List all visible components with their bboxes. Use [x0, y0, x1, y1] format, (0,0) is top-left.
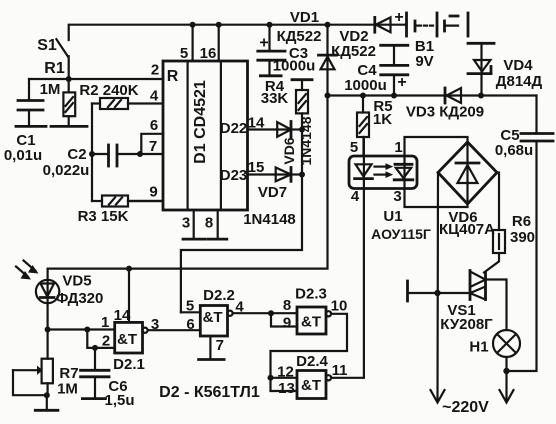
wire R2-R3 left vertical — [91, 104, 93, 202]
diode VD3 КД209 — [406, 88, 484, 121]
svg-text:1K: 1K — [373, 111, 392, 128]
svg-text:АОУ115Г: АОУ115Г — [371, 226, 431, 242]
svg-text:33K: 33K — [261, 90, 289, 107]
svg-text:VD7: VD7 — [258, 184, 287, 201]
svg-text:1: 1 — [394, 139, 402, 156]
pin 7 label — [149, 138, 157, 155]
wire pin14 lead — [126, 266, 132, 323]
capacitor C1 — [4, 79, 46, 164]
wire gate — [408, 292, 471, 294]
gate D2.4 — [268, 353, 348, 399]
pin 14 wire — [248, 115, 292, 132]
svg-text:H1: H1 — [469, 339, 488, 356]
wire pins 6-7 loop — [137, 134, 163, 157]
svg-text:0,68u: 0,68u — [495, 142, 533, 159]
svg-text:D2 - К561ТЛ1: D2 - К561ТЛ1 — [159, 384, 260, 401]
resistor R3 — [78, 196, 163, 226]
capacitor C4 — [344, 45, 408, 98]
svg-text:КД522: КД522 — [331, 43, 376, 60]
resistor R5 — [357, 93, 393, 157]
node gate junction — [434, 290, 440, 296]
triac VS1 КУ208Г — [440, 271, 493, 334]
wire opto pin3 to bridge bottom — [405, 188, 468, 207]
svg-text:9: 9 — [149, 184, 157, 201]
wire D2.3 out to D2.4 inputs — [271, 314, 348, 378]
svg-text:1: 1 — [101, 314, 109, 331]
svg-text:&T: &T — [301, 377, 321, 394]
svg-text:R: R — [167, 68, 179, 85]
wire triac to lamp — [486, 280, 507, 331]
svg-text:VD5: VD5 — [62, 273, 91, 290]
svg-text:3: 3 — [393, 188, 401, 205]
wire D2.2 out to D2.3 — [233, 312, 297, 314]
svg-text:4: 4 — [351, 188, 360, 205]
node VD5 bottom junction — [45, 327, 51, 333]
svg-text:1M: 1M — [57, 381, 78, 398]
node diode junction 15 — [299, 172, 305, 178]
resistor R2 — [79, 82, 163, 109]
svg-text:3: 3 — [182, 215, 190, 232]
resistor R6 — [484, 173, 535, 273]
capacitor C2 — [43, 145, 140, 179]
svg-text:12: 12 — [277, 364, 294, 381]
svg-text:&T: &T — [117, 331, 137, 348]
switch S1 — [37, 37, 68, 79]
battery B1 — [394, 9, 468, 70]
photodiode VD5 ФД320 — [16, 261, 103, 330]
wire left node — [29, 78, 163, 80]
svg-text:5: 5 — [186, 298, 194, 315]
svg-text:8: 8 — [283, 297, 291, 314]
pin 5 lead — [180, 22, 196, 62]
svg-text:R1: R1 — [44, 60, 65, 77]
label ~220V — [442, 399, 489, 416]
svg-text:1M: 1M — [40, 81, 61, 98]
svg-text:2: 2 — [102, 333, 110, 350]
svg-text:&T: &T — [301, 314, 321, 331]
pin 8 lead and ground — [205, 210, 227, 239]
svg-text:D2.4: D2.4 — [296, 353, 328, 370]
wire top rail — [69, 25, 407, 40]
node diode junction 14 — [299, 127, 305, 133]
svg-text:R3 15K: R3 15K — [78, 208, 129, 225]
svg-text:4: 4 — [150, 88, 159, 105]
diode VD6 1N4148 — [277, 116, 314, 165]
svg-text:13: 13 — [278, 380, 295, 397]
svg-text:+: + — [259, 35, 268, 52]
svg-text:&T: &T — [203, 309, 223, 326]
svg-text:VD4: VD4 — [503, 57, 533, 74]
wire pin2 branch — [87, 330, 114, 348]
gate D2.2 — [181, 287, 245, 360]
svg-text:D2.2: D2.2 — [203, 287, 235, 304]
node VD3-VD4 junction — [478, 93, 484, 99]
wire diode junction down to D2.2 pin5 — [181, 130, 302, 313]
bridge rectifier VD6 КЦ407А — [438, 142, 497, 238]
svg-text:КД522: КД522 — [277, 28, 322, 45]
svg-text:7: 7 — [216, 337, 224, 354]
node pin2 branch — [84, 327, 90, 333]
svg-text:D2.1: D2.1 — [113, 356, 145, 373]
svg-text:Д814Д: Д814Д — [496, 73, 543, 90]
svg-text:C2: C2 — [67, 146, 86, 163]
svg-text:VD3 КД209: VD3 КД209 — [406, 104, 484, 121]
svg-text:U1: U1 — [383, 208, 402, 225]
svg-text:15: 15 — [248, 159, 265, 176]
node VD2 bottom — [325, 93, 331, 99]
zener VD4 Д814Д — [468, 43, 543, 95]
gate D2.3 — [268, 286, 347, 335]
svg-text:+: + — [397, 74, 406, 91]
svg-text:5: 5 — [180, 45, 188, 62]
pin 16 lead — [200, 22, 222, 62]
pin 9 wire — [128, 200, 163, 202]
svg-text:0,01u: 0,01u — [4, 147, 42, 164]
svg-text:VD6: VD6 — [281, 137, 297, 164]
mains arrow left — [431, 390, 445, 403]
svg-text:1N4148: 1N4148 — [298, 116, 314, 165]
node C6 tap — [92, 345, 98, 351]
svg-text:16: 16 — [200, 45, 217, 62]
svg-text:D22: D22 — [220, 120, 248, 137]
wire mid rail — [328, 94, 537, 96]
mains arrow right — [500, 390, 514, 403]
IC D1 CD4521 — [163, 61, 248, 210]
svg-text:КУ208Г: КУ208Г — [440, 316, 493, 333]
svg-text:11: 11 — [332, 362, 348, 379]
svg-text:D2.3: D2.3 — [295, 286, 327, 303]
svg-text:R2 240K: R2 240K — [79, 82, 138, 99]
potentiometer R7 — [13, 330, 79, 411]
svg-text:6: 6 — [186, 316, 194, 333]
wire D2.1 out to D2.2 pin6 — [148, 329, 201, 331]
terminal bar gate — [406, 281, 409, 301]
svg-text:D1 CD4521: D1 CD4521 — [192, 80, 209, 164]
svg-text:~220V: ~220V — [442, 399, 489, 416]
svg-text:7: 7 — [149, 138, 157, 155]
wire opto pin1 to bridge top — [405, 137, 468, 156]
svg-text:8: 8 — [205, 215, 213, 232]
svg-text:1N4148: 1N4148 — [243, 211, 296, 228]
node R1 top junction — [66, 76, 72, 82]
svg-text:10: 10 — [331, 298, 348, 315]
wire lamp bottom node — [503, 357, 509, 401]
svg-text:VD1: VD1 — [290, 9, 319, 26]
svg-text:390: 390 — [510, 229, 535, 246]
lamp H1 — [469, 330, 520, 357]
diode VD1 КД522 — [277, 9, 391, 45]
svg-text:ФД320: ФД320 — [56, 290, 104, 307]
pin 9 label — [149, 184, 157, 201]
svg-text:+: + — [394, 9, 403, 26]
capacitor C5 — [495, 96, 553, 372]
svg-text:9V: 9V — [415, 53, 433, 70]
pin 4 label — [150, 88, 159, 105]
capacitor C3 — [258, 22, 315, 76]
optocoupler U1 АОУ115Г — [349, 137, 431, 242]
svg-text:2: 2 — [151, 62, 159, 79]
svg-text:R6: R6 — [512, 213, 531, 230]
wire to D2.1 pin1 — [48, 328, 115, 330]
diode VD7 1N4148 — [243, 168, 302, 229]
pin 6 label — [150, 117, 158, 134]
resistor R1 — [40, 60, 87, 126]
wire VD2 node down to VD5 line — [48, 96, 328, 269]
pin 3 lead and ground — [182, 210, 206, 239]
svg-text:9: 9 — [283, 315, 291, 332]
pin 15 wire — [248, 159, 292, 176]
svg-text:1,5u: 1,5u — [104, 392, 134, 409]
svg-text:14: 14 — [248, 115, 265, 132]
svg-text:R7: R7 — [59, 365, 78, 382]
svg-text:5: 5 — [350, 139, 358, 156]
wire opto pin4 down to D2.4 output — [331, 188, 364, 378]
wire bridge left corner down to gate node and mains arrow — [436, 173, 439, 402]
svg-text:0,022u: 0,022u — [43, 162, 90, 179]
label D2 type — [159, 384, 260, 401]
pin 2 label — [151, 62, 159, 79]
diode VD2 КД522 — [319, 22, 376, 96]
svg-text:КЦ407А: КЦ407А — [439, 221, 495, 238]
resistor R4 — [261, 78, 312, 130]
capacitor C6 — [81, 348, 135, 409]
svg-text:D23: D23 — [220, 167, 248, 184]
svg-text:1000u: 1000u — [273, 58, 316, 75]
svg-text:6: 6 — [150, 117, 158, 134]
gate D2.1 — [101, 307, 159, 373]
svg-text:1000u: 1000u — [344, 77, 387, 94]
svg-text:S1: S1 — [37, 37, 57, 54]
